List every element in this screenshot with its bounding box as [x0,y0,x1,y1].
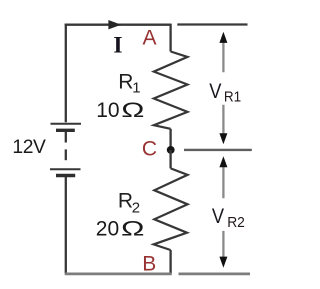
svg-text:R: R [118,190,133,213]
battery V1 cell2 long positive plate [50,168,81,170]
svg-text:1: 1 [132,80,140,97]
node B potential reference line (bottom right) [179,272,251,275]
svg-text:Ω: Ω [121,98,144,122]
svg-text:10: 10 [96,99,119,122]
wire lead node A down to resistor R1 top [169,24,171,52]
VR1 arrow stem [222,42,224,135]
svg-text:R2: R2 [227,214,245,231]
svg-text:A: A [142,27,156,50]
VR1 arrowhead down (at node C line) [219,133,227,144]
VR2 arrowhead down (at node B line) [219,257,227,268]
svg-text:20: 20 [96,217,119,240]
svg-text:Ω: Ω [121,216,145,240]
wire lead node C down to resistor R2 top [169,150,171,168]
VR2 arrow stem [222,167,224,258]
wire left vertical from top wire down to battery + terminal [65,24,67,123]
wire lead resistor R2 bottom to node B [169,250,171,274]
wire top horizontal from battery + to node A [65,24,171,26]
svg-text:C: C [142,138,157,161]
node C junction dot [167,146,175,154]
node A potential reference line (top right) [177,23,247,25]
wire battery internal stem below cell1 [65,132,67,143]
svg-text:B: B [142,253,156,276]
wire lead resistor R1 bottom to node C [169,129,171,150]
svg-text:V: V [209,80,221,103]
svg-text:2: 2 [132,199,140,216]
svg-text:R: R [118,70,133,93]
node C potential reference line (middle right) [184,149,252,151]
current arrow I on top wire [108,20,121,29]
VR2 arrowhead up (at node C line) [219,156,227,167]
resistor R1 zigzag body [154,52,188,129]
battery V1 cell1 short negative plate [56,129,75,132]
wire bottom horizontal from battery - to node B [65,272,172,275]
wire left vertical from battery - terminal down to bottom wire [65,177,67,274]
battery V1 cell2 short negative plate [56,174,75,177]
svg-text:12V: 12V [12,137,46,158]
resistor R2 zigzag body [154,168,188,250]
svg-text:R1: R1 [224,88,241,105]
battery V1 dashed middle (more cells) [65,149,67,160]
svg-text:V: V [212,205,224,228]
VR1 arrowhead up (at node A line) [219,32,227,43]
battery V1 cell1 long positive plate [51,123,82,125]
svg-text:I: I [113,32,122,58]
